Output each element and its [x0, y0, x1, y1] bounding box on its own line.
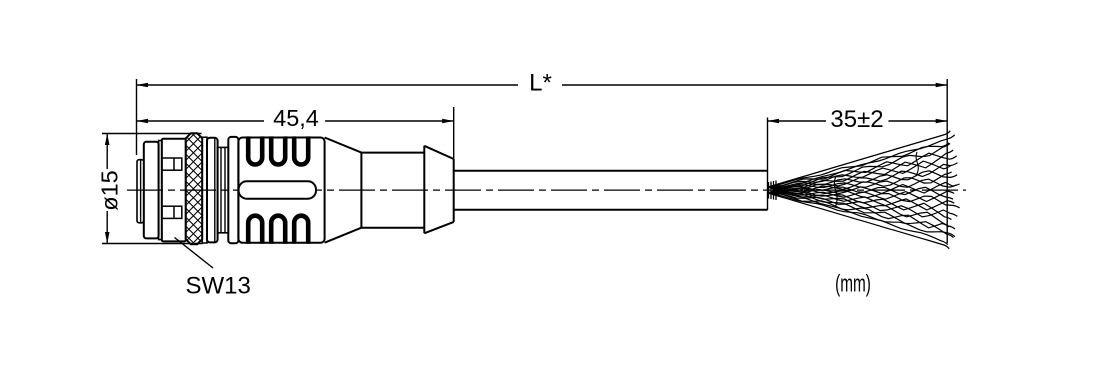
wire strand 6	[768, 150, 953, 193]
taper cone	[325, 138, 362, 153]
wire strand 8	[768, 163, 957, 193]
wire strand 5	[768, 153, 957, 187]
grip groove top 2	[271, 136, 285, 164]
bottom key	[162, 206, 182, 218]
wire strand 1	[768, 131, 950, 187]
SW13 label	[175, 238, 214, 269]
front shell	[144, 142, 159, 239]
ext line left	[136, 79, 138, 155]
wire strand 16	[768, 193, 954, 210]
wire strand 19	[768, 187, 955, 229]
ext line 45,4 right	[453, 107, 455, 159]
grip ring	[228, 137, 238, 243]
grip groove bottom 1	[248, 216, 262, 244]
ext line cable end	[767, 118, 769, 211]
wire strand 7	[768, 161, 951, 187]
wire strand 15	[768, 187, 960, 208]
top key	[162, 158, 182, 170]
wire bundle at cable mouth	[769, 181, 777, 201]
svg-text:SW13: SW13	[186, 273, 251, 300]
wire strand 17	[768, 187, 951, 219]
braid fold mark 1	[834, 177, 837, 207]
grip groove bottom 3	[294, 216, 308, 244]
svg-text:L*: L*	[529, 70, 552, 97]
wire strand 12	[768, 182, 960, 193]
braid fold mark 2	[916, 152, 918, 174]
washer band	[159, 141, 162, 240]
dim ø15	[102, 133, 202, 135]
wire strand 24	[768, 193, 949, 249]
wire strand 23	[768, 187, 948, 245]
wire strand 4	[768, 143, 950, 193]
wire strand 21	[768, 187, 954, 238]
label window	[239, 181, 316, 198]
spacer after knurl	[202, 137, 207, 243]
wire strand 9	[768, 171, 957, 187]
svg-text:35±2: 35±2	[830, 106, 883, 133]
svg-text:45,4: 45,4	[273, 105, 319, 131]
ring washer	[207, 138, 218, 243]
wire strand 10	[768, 172, 952, 193]
wire strand 3	[768, 143, 949, 187]
wire strand 18	[768, 193, 957, 217]
dim 45,4	[137, 120, 265, 122]
mid cylinder	[360, 153, 362, 228]
dim 35±2	[768, 120, 827, 122]
flare end piece	[424, 146, 453, 234]
grip groove top 3	[294, 136, 308, 164]
connector front rim	[137, 160, 144, 223]
wire strand 11	[768, 179, 956, 188]
waist / gasket	[218, 147, 229, 232]
grip groove bottom 2	[271, 216, 285, 244]
grip groove top 1	[248, 136, 262, 164]
wire strand 14	[768, 191, 954, 201]
wire strand 2	[768, 135, 955, 193]
svg-text:(mm): (mm)	[835, 271, 871, 297]
dim L*	[137, 84, 519, 86]
svg-text:ø15: ø15	[97, 170, 123, 211]
wire strand 22	[768, 193, 955, 237]
centerline	[127, 189, 966, 191]
wire strand 20	[768, 193, 949, 228]
ext line right	[946, 79, 948, 243]
wire strand 13	[768, 186, 953, 199]
grip body	[238, 138, 324, 243]
cable jacket	[454, 170, 768, 172]
key body	[162, 139, 186, 242]
